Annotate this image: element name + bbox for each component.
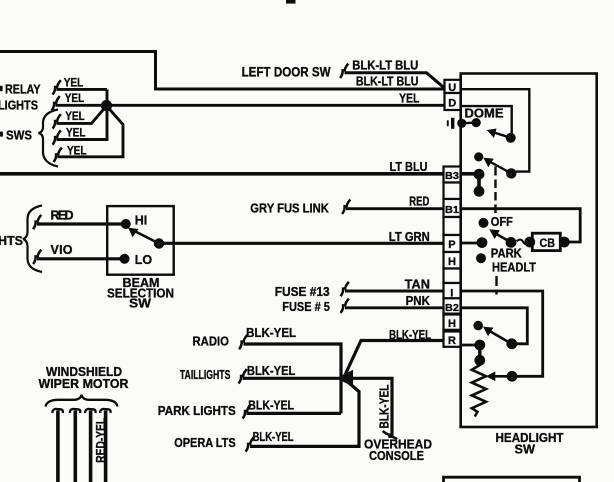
wire overhead console branch	[344, 378, 393, 436]
wire YEL 2 (to D terminal)	[56, 104, 445, 107]
squiggle link pivot to CB	[517, 240, 530, 244]
contact HEADLT	[476, 253, 486, 263]
rheostat zigzag	[472, 360, 486, 416]
brace for wiper motor	[46, 395, 118, 407]
svg-text:SWS: SWS	[6, 128, 32, 143]
CB right dot	[559, 237, 570, 248]
svg-text:LIGHTS: LIGHTS	[0, 98, 38, 113]
terminal P	[444, 235, 461, 252]
svg-text:YEL: YEL	[67, 143, 87, 157]
U feed frame (inner box upper)	[462, 89, 530, 171]
svg-text:HTS: HTS	[0, 233, 23, 248]
headlight switch box	[461, 74, 597, 428]
svg-text:B2: B2	[445, 302, 459, 314]
svg-text:CONSOLE: CONSOLE	[369, 448, 424, 463]
wire RED to HI contact	[37, 222, 126, 225]
junction dot of YEL wires	[101, 100, 112, 111]
svg-text:R: R	[448, 335, 456, 347]
wiper motor wire 3	[89, 411, 93, 482]
dome feed dot on box edge	[457, 119, 466, 128]
wire B2 loop to lower pivot	[461, 308, 528, 344]
svg-text:BLK-YEL: BLK-YEL	[248, 399, 294, 413]
rheostat top dot	[474, 355, 485, 366]
wire B1 loop to CB	[461, 209, 581, 242]
svg-text:YEL: YEL	[65, 109, 85, 123]
cut text fragment left edge row3	[0, 132, 3, 137]
terminal blank 3	[444, 269, 461, 284]
svg-text:YEL: YEL	[399, 91, 420, 105]
beam switch pivot and arm	[154, 238, 164, 248]
junction arrowhead	[337, 370, 354, 387]
svg-text:RADIO: RADIO	[193, 333, 230, 348]
wire YEL 4 (via vertical riser)	[57, 89, 108, 139]
svg-text:RED: RED	[409, 194, 429, 208]
contact OFF	[479, 218, 489, 228]
cut text fragment left edge row1	[0, 86, 3, 91]
terminal U	[445, 80, 461, 93]
dome switch pivot and arm	[506, 133, 516, 143]
second dome pivot and arm	[506, 168, 516, 178]
svg-text:BLK-LT BLU: BLK-LT BLU	[352, 58, 418, 72]
wire R to rheostat top	[461, 344, 482, 347]
svg-text:YEL: YEL	[66, 126, 86, 140]
svg-text:SW: SW	[129, 297, 151, 311]
wire left door sw to U (diagonal)	[345, 73, 445, 88]
svg-text:DOME: DOME	[465, 107, 504, 121]
R wire dot	[474, 340, 485, 351]
mechanical linkage dashed line	[494, 167, 496, 176]
wire I loop to rheostat wiper	[461, 291, 543, 376]
svg-text:LO: LO	[135, 253, 153, 267]
svg-text:BLK-YEL: BLK-YEL	[253, 430, 294, 444]
wire TAN to I terminal	[345, 290, 444, 293]
dome contact dot	[472, 118, 481, 127]
terminal blank 1	[444, 183, 461, 200]
wire dome feed	[462, 121, 476, 124]
terminal H lower	[444, 315, 461, 330]
svg-text:GRY FUS LINK: GRY FUS LINK	[250, 202, 328, 216]
svg-text:B1: B1	[445, 204, 459, 216]
svg-text:LEFT DOOR SW: LEFT DOOR SW	[242, 65, 331, 80]
svg-text:LT GRN: LT GRN	[389, 230, 430, 244]
svg-text:H: H	[448, 318, 456, 330]
svg-text:BLK-LT BLU: BLK-LT BLU	[356, 75, 419, 89]
terminal B3	[444, 167, 461, 183]
svg-text:TAN: TAN	[405, 277, 430, 291]
bottom partial box	[444, 477, 580, 482]
main switch pivot and arm	[506, 237, 517, 248]
svg-text:TAILLIGHTS: TAILLIGHTS	[180, 367, 231, 382]
wire YEL 3	[57, 106, 107, 124]
svg-text:BLK-YEL: BLK-YEL	[378, 384, 392, 428]
terminal H upper	[444, 252, 461, 269]
svg-text:RED: RED	[51, 209, 74, 223]
svg-text:WIPER MOTOR: WIPER MOTOR	[39, 377, 129, 391]
terminal B1	[444, 199, 461, 217]
contact LO	[120, 254, 130, 264]
wire PNK to B2 terminal	[345, 306, 444, 309]
wiper motor wire 4	[104, 411, 108, 482]
B3 jumper lower dot	[474, 186, 485, 197]
wire YEL 5 (via riser and diagonal)	[58, 106, 124, 157]
svg-text:SW: SW	[515, 441, 536, 456]
terminal B2	[444, 298, 461, 313]
wire YEL 1	[57, 88, 108, 91]
svg-text:B3: B3	[445, 170, 459, 182]
wire junction diagonal up to R terminal row	[344, 341, 444, 379]
svg-text:PARK: PARK	[491, 247, 522, 261]
wire P to park contact	[461, 242, 483, 245]
svg-text:FUSE # 5: FUSE # 5	[282, 300, 330, 314]
brace for SWS group	[39, 110, 59, 167]
svg-text:H: H	[448, 256, 456, 268]
B3 jumper upper dot	[474, 169, 485, 180]
CB left dot	[524, 237, 535, 248]
bar R dot to rheostat dot	[478, 345, 481, 360]
svg-text:RELAY: RELAY	[5, 82, 41, 97]
second dome contact dot	[474, 152, 483, 161]
svg-text:HI: HI	[135, 213, 148, 227]
svg-text:YEL: YEL	[64, 75, 83, 89]
svg-text:BLK-YEL: BLK-YEL	[389, 328, 431, 342]
wire BLK-YEL from taillights to junction	[243, 377, 344, 380]
wire: step wire from left edge to U terminal	[0, 52, 445, 90]
svg-text:RED-YEL: RED-YEL	[93, 418, 108, 463]
wire LT GRN from beam pivot to P terminal	[159, 242, 444, 245]
overhead console arrow end	[383, 431, 397, 439]
dome switch frame (inner box lower)	[462, 106, 512, 135]
wiper motor wire 2	[74, 411, 78, 482]
wire VIO to LO contact	[37, 257, 124, 260]
terminal R	[444, 332, 461, 347]
wire RED (gry fus link) to B1	[346, 207, 444, 210]
svg-text:PNK: PNK	[406, 294, 430, 308]
beam selection switch box	[107, 206, 174, 275]
svg-text:D: D	[448, 97, 456, 109]
B3 jumper bar	[477, 174, 481, 191]
terminal D	[445, 93, 461, 110]
svg-text:CB: CB	[540, 236, 556, 250]
svg-text:BLK-YEL: BLK-YEL	[247, 364, 296, 378]
contact HI	[121, 219, 131, 229]
svg-text:HEADLT: HEADLT	[492, 261, 536, 275]
svg-text:FUSE #13: FUSE #13	[275, 285, 330, 299]
svg-text:LT BLU: LT BLU	[390, 160, 428, 174]
wire BLK-YEL from park lights	[247, 412, 342, 415]
contact H	[473, 321, 483, 331]
torn page mark top edge	[286, 0, 296, 4]
dome lamp icon bars	[447, 120, 449, 126]
wiper motor wire 1	[56, 411, 60, 482]
svg-text:VIO: VIO	[51, 243, 73, 257]
brace for HTS group	[23, 206, 42, 273]
wire BLK-YEL from radio, down to park lights row	[244, 344, 342, 413]
svg-text:OFF: OFF	[491, 215, 513, 229]
svg-text:YEL: YEL	[65, 91, 85, 105]
svg-text:OPERA LTS: OPERA LTS	[174, 435, 236, 450]
rheostat wiper dot and arrow	[507, 371, 518, 382]
svg-text:P: P	[448, 239, 455, 251]
svg-text:BLK-YEL: BLK-YEL	[246, 326, 296, 340]
terminal I	[444, 283, 461, 298]
circuit breaker CB box	[532, 233, 560, 250]
wire BLK-YEL from opera lts, riser to junction	[250, 378, 359, 446]
svg-text:PARK LIGHTS: PARK LIGHTS	[158, 403, 236, 418]
lower switch pivot and arm	[506, 338, 517, 349]
contact PARK	[477, 237, 488, 248]
wire LT BLU full width to B3	[0, 172, 479, 176]
terminal blank 2	[444, 217, 461, 235]
